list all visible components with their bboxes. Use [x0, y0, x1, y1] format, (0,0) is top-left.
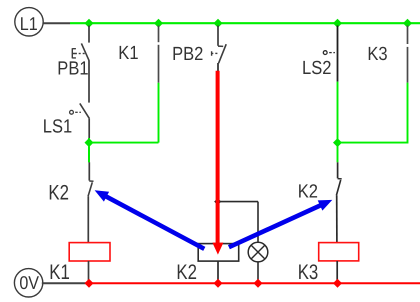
bottom rail 0V (red): [89, 282, 420, 284]
annotation red arrow (PB2 to coil K2): [212, 71, 223, 255]
wire rail to K3 contact: [407, 26, 409, 45]
wire K2 left to coil K1: [87, 196, 89, 242]
wire coil K1 to 0V rail: [88, 261, 90, 282]
wire PB2 down to coil K2: [217, 63, 219, 244]
node K3 top junction: [403, 19, 412, 28]
node lamp bottom junction: [254, 279, 263, 288]
terminal 0V: [14, 269, 42, 297]
wire rail to PB1: [88, 26, 90, 43]
node LS1/K1 junction: [85, 138, 94, 147]
contact K1 (closed): [158, 45, 160, 83]
top rail L1 (green): [70, 22, 420, 24]
svg-text:K1: K1: [118, 43, 138, 64]
node LS2 top junction: [333, 19, 342, 28]
node PB2 top junction: [214, 19, 223, 28]
coil K3: [319, 243, 359, 261]
svg-text:L1: L1: [20, 13, 38, 34]
node K3 coil bottom junction: [333, 279, 342, 288]
coil K2: [198, 244, 239, 262]
svg-text:K1: K1: [49, 261, 70, 284]
annotation blue arrow (coil K2 to contact K2 right): [229, 200, 332, 247]
wire lamp to 0V rail: [257, 262, 259, 283]
terminal L1: [15, 8, 43, 36]
node LS2/K3 junction: [333, 138, 342, 147]
contact K2 left (NO): [88, 162, 93, 196]
wire PB1 to LS1: [88, 60, 90, 102]
wire LS2 to K2 right (green): [337, 82, 339, 163]
node K1 top junction: [154, 19, 163, 28]
wire rail to K1 contact: [158, 26, 160, 43]
wire K1 to junction (green): [158, 83, 160, 143]
wire junction to K1 branch (green): [89, 142, 159, 144]
wire L1 to rail: [43, 22, 70, 24]
svg-text:LS2: LS2: [302, 58, 331, 79]
wire junction to K3 branch (green): [338, 83, 408, 143]
node lamp branch junction: [214, 198, 221, 205]
wire rail to PB2: [217, 26, 219, 46]
limit switch LS1 (NO, open arm): [70, 103, 90, 118]
svg-text:K2: K2: [298, 181, 318, 202]
wire 0V to rail: [42, 282, 89, 284]
node K1 coil bottom junction: [85, 279, 94, 288]
wire LS1 to junction (green): [88, 138, 90, 162]
contact K3 (closed): [407, 47, 409, 83]
annotation blue arrow (coil K2 to contact K2 left): [95, 190, 205, 249]
wire K2 right to coil K3: [336, 195, 338, 242]
svg-text:PB2: PB2: [172, 44, 203, 65]
contact K2 right (NO): [336, 162, 341, 195]
wire coil K3 to 0V rail: [336, 261, 338, 282]
svg-text:K2: K2: [176, 261, 197, 284]
svg-text:K3: K3: [367, 44, 387, 65]
contact LS2 (closed): [337, 26, 339, 82]
wire lamp branch down: [257, 202, 259, 243]
lamp PL (indicator): [248, 242, 268, 262]
node K2 coil bottom junction: [214, 279, 223, 288]
wire junction to lamp (horizontal): [218, 201, 258, 203]
actuator LS2: [323, 51, 335, 55]
pushbutton PB2 (NC): [212, 44, 227, 63]
pushbutton PB1 (NO, open arm): [72, 43, 89, 60]
wire junction to K2 left contact (green): [88, 147, 90, 162]
coil K1: [69, 243, 110, 261]
node PB1 top junction: [85, 19, 94, 28]
svg-text:LS1: LS1: [43, 116, 72, 137]
wire LS1 down (dark): [88, 119, 90, 138]
svg-text:K2: K2: [48, 181, 69, 204]
svg-text:K3: K3: [298, 261, 319, 284]
svg-text:0V: 0V: [19, 272, 39, 293]
wire coil K2 to 0V rail: [217, 261, 219, 282]
svg-text:PB1: PB1: [57, 58, 88, 79]
